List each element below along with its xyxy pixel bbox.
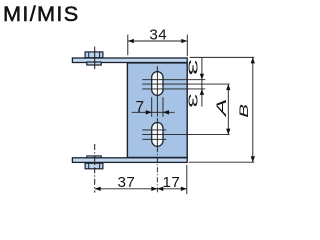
- bottom slot centerline upper part: [156, 118, 158, 147]
- dim A line: [227, 84, 229, 135]
- top rail: [72, 58, 187, 63]
- top slot crosshair upper: [142, 79, 205, 81]
- bottom rail flange (clamp upper plate): [87, 156, 101, 159]
- dim 7 arrow left (points right at ext line): [146, 110, 152, 114]
- dim B line: [252, 57, 254, 162]
- dim B extension line bottom: [189, 161, 254, 163]
- dim 17 arrow left: [157, 187, 163, 191]
- dim 37 arrow left: [95, 187, 101, 191]
- dim 34 arrow left: [128, 39, 134, 43]
- dim 34 arrow right: [181, 39, 187, 43]
- plate: [127, 63, 187, 158]
- svg-text:MI/MIS: MI/MIS: [3, 1, 79, 26]
- dim B arrow bottom: [251, 156, 255, 162]
- bottom slot crosshair upper: [142, 129, 166, 131]
- dim 17 extension line right (plate right edge): [186, 165, 188, 194]
- dim 37/17 shared dimension line: [95, 188, 187, 190]
- svg-text:34: 34: [149, 26, 167, 43]
- bottom clamp body: [85, 163, 103, 169]
- svg-text:3: 3: [186, 59, 201, 75]
- top clamp body divider left: [88, 52, 90, 58]
- bottom clamp centerline (extension line of dim 37): [94, 144, 96, 193]
- dim 3 bottom arrow (points up at lower arc center line): [200, 89, 204, 95]
- top slot centerline: [156, 66, 158, 116]
- bottom slot: [152, 123, 163, 147]
- svg-text:B: B: [237, 104, 251, 118]
- dim 34 extension line right: [186, 35, 188, 57]
- dim 17 arrow right: [181, 187, 187, 191]
- top clamp body: [85, 52, 103, 58]
- dim 37 arrow right: [151, 187, 157, 191]
- svg-text:37: 37: [118, 174, 136, 191]
- dim A arrow bottom: [226, 129, 230, 135]
- dim 3 top arrow (points down at upper arc center line): [200, 74, 204, 80]
- bottom rail: [72, 158, 187, 163]
- svg-text:7: 7: [136, 99, 145, 116]
- dim B extension line top: [190, 56, 255, 58]
- top clamp body divider right: [99, 52, 101, 58]
- top slot crosshair middle (extension line of dim A top): [142, 83, 229, 85]
- bottom slot crosshair middle (extension line of dim A bottom): [142, 134, 229, 136]
- bottom clamp body divider left: [88, 163, 90, 169]
- dim 3 shared dimension line vertical: [201, 57, 203, 106]
- svg-text:A: A: [214, 99, 229, 119]
- dim 34 line: [128, 40, 188, 42]
- bottom slot crosshair lower: [142, 138, 166, 140]
- top slot crosshair lower: [142, 88, 205, 90]
- bottom clamp body divider right: [99, 163, 101, 169]
- bottom slot centerline lower part (extension line of dim 17): [156, 147, 158, 193]
- svg-text:17: 17: [163, 174, 181, 191]
- dim A arrow top: [226, 84, 230, 90]
- top slot: [152, 72, 163, 96]
- top clamp centerline: [94, 47, 96, 70]
- dim B arrow top: [251, 57, 255, 63]
- top clamp flange: [87, 62, 101, 65]
- svg-text:3: 3: [185, 93, 199, 107]
- dim 7 line: [132, 111, 175, 113]
- title MI/MIS: [3, 1, 79, 26]
- dim 7 arrow right (points left at ext line): [163, 110, 169, 114]
- dim 7 extension line right: [162, 97, 164, 117]
- dim 34 extension line left: [127, 35, 129, 56]
- dim 7 extension line left: [151, 97, 153, 117]
